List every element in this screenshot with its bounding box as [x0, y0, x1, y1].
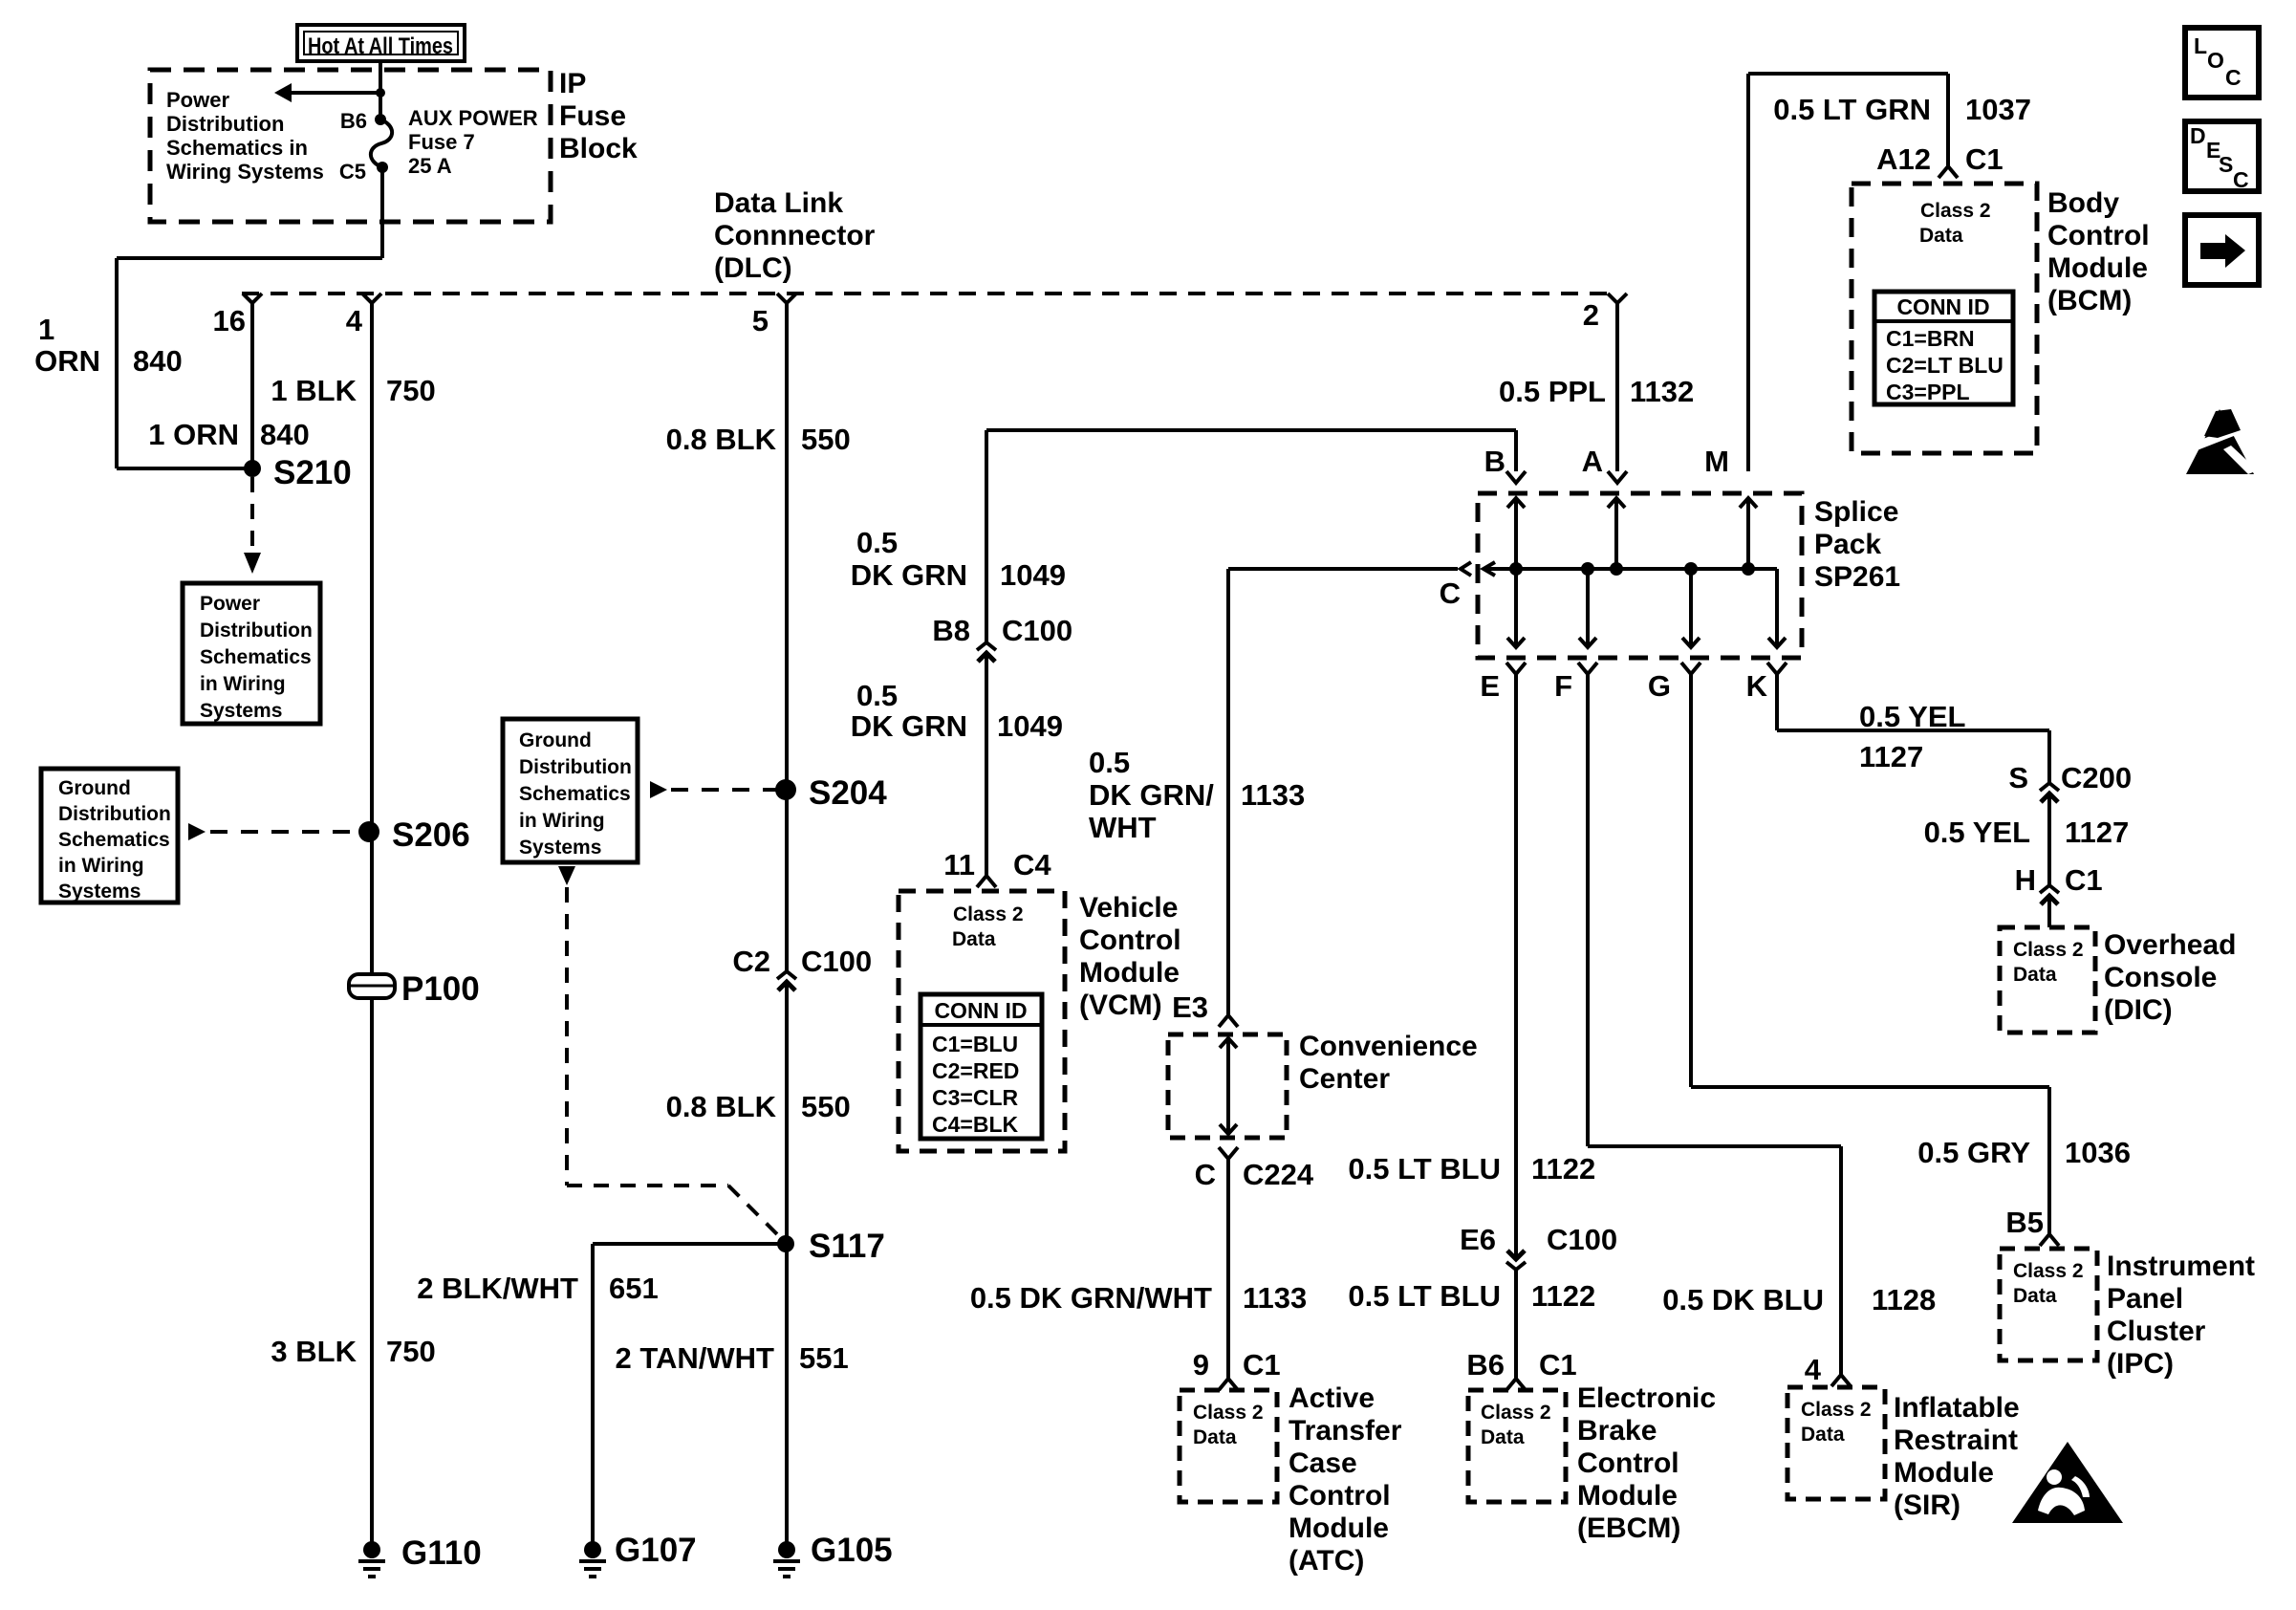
svg-text:Vehicle: Vehicle	[1079, 892, 1178, 924]
svg-text:C2=RED: C2=RED	[932, 1058, 1019, 1083]
svg-text:Data: Data	[1801, 1424, 1845, 1446]
svg-text:B6: B6	[340, 109, 367, 133]
svg-text:Class 2: Class 2	[1801, 1399, 1872, 1421]
svg-text:B6: B6	[1466, 1348, 1505, 1382]
svg-text:E3: E3	[1172, 990, 1208, 1024]
svg-text:Module: Module	[1894, 1457, 1994, 1489]
svg-text:840: 840	[260, 418, 310, 451]
svg-text:Fuse: Fuse	[559, 100, 626, 132]
svg-text:D: D	[2190, 123, 2206, 148]
svg-text:550: 550	[801, 1090, 851, 1123]
svg-text:DK GRN/: DK GRN/	[1089, 778, 1214, 812]
svg-text:4: 4	[346, 304, 363, 337]
svg-text:Data: Data	[1919, 225, 1963, 247]
svg-text:Electronic: Electronic	[1577, 1382, 1716, 1414]
svg-text:DK GRN: DK GRN	[851, 558, 967, 592]
svg-text:Class 2: Class 2	[1481, 1402, 1551, 1424]
svg-text:C1: C1	[2065, 863, 2103, 897]
svg-text:C2: C2	[732, 945, 770, 978]
svg-text:Class 2: Class 2	[1193, 1402, 1264, 1424]
svg-text:(IPC): (IPC)	[2107, 1348, 2174, 1380]
svg-text:Wiring Systems: Wiring Systems	[166, 160, 324, 184]
svg-text:G: G	[1648, 669, 1671, 703]
svg-text:9: 9	[1193, 1348, 1209, 1382]
svg-text:SP261: SP261	[1814, 561, 1900, 593]
svg-text:1036: 1036	[2065, 1136, 2131, 1169]
svg-text:1 ORN: 1 ORN	[148, 418, 239, 451]
svg-text:Module: Module	[1289, 1512, 1389, 1544]
svg-text:Instrument: Instrument	[2107, 1251, 2255, 1282]
svg-text:Class 2: Class 2	[2013, 1260, 2084, 1282]
svg-text:C1: C1	[1965, 142, 2004, 176]
svg-text:C5: C5	[339, 160, 366, 184]
svg-text:Systems: Systems	[200, 700, 282, 722]
svg-text:B8: B8	[932, 614, 970, 647]
svg-text:Data Link: Data Link	[714, 187, 843, 219]
svg-text:(BCM): (BCM)	[2047, 285, 2132, 316]
svg-text:F: F	[1554, 669, 1572, 703]
svg-text:0.5 LT BLU: 0.5 LT BLU	[1348, 1279, 1501, 1313]
svg-text:Module: Module	[1577, 1480, 1678, 1512]
svg-text:G107: G107	[615, 1532, 697, 1569]
svg-text:C100: C100	[1547, 1223, 1617, 1256]
svg-text:Hot At All Times: Hot At All Times	[308, 33, 453, 59]
svg-text:Schematics: Schematics	[519, 783, 631, 805]
svg-text:Schematics in: Schematics in	[166, 136, 308, 160]
svg-text:1122: 1122	[1531, 1152, 1595, 1186]
svg-text:B5: B5	[2005, 1206, 2044, 1239]
svg-text:1133: 1133	[1243, 1281, 1307, 1315]
svg-text:AUX POWER: AUX POWER	[408, 106, 538, 130]
svg-text:2 TAN/WHT: 2 TAN/WHT	[616, 1341, 775, 1375]
svg-text:Inflatable: Inflatable	[1894, 1392, 2020, 1424]
svg-text:L: L	[2194, 33, 2207, 58]
svg-text:K: K	[1746, 669, 1768, 703]
svg-text:S204: S204	[809, 774, 887, 812]
svg-text:A12: A12	[1876, 142, 1931, 176]
svg-text:C2=LT BLU: C2=LT BLU	[1886, 353, 2004, 378]
svg-text:Ground: Ground	[519, 729, 592, 751]
svg-text:Data: Data	[2013, 1285, 2057, 1307]
svg-text:ORN: ORN	[34, 344, 100, 378]
svg-text:0.5 DK BLU: 0.5 DK BLU	[1662, 1283, 1824, 1316]
svg-text:Distribution: Distribution	[58, 803, 171, 825]
svg-text:CONN ID: CONN ID	[934, 998, 1027, 1023]
svg-text:1127: 1127	[1859, 740, 1923, 773]
svg-text:WHT: WHT	[1089, 811, 1157, 844]
svg-text:25 A: 25 A	[408, 154, 452, 178]
svg-text:2 BLK/WHT: 2 BLK/WHT	[417, 1272, 578, 1305]
svg-text:in Wiring: in Wiring	[200, 673, 286, 695]
svg-text:0.5: 0.5	[856, 679, 898, 712]
svg-text:Power: Power	[200, 593, 260, 615]
svg-text:Distribution: Distribution	[519, 756, 632, 778]
svg-text:Pack: Pack	[1814, 529, 1881, 560]
svg-text:(DIC): (DIC)	[2104, 994, 2173, 1026]
svg-text:0.5 LT BLU: 0.5 LT BLU	[1348, 1152, 1501, 1186]
svg-text:(SIR): (SIR)	[1894, 1490, 1960, 1521]
svg-text:C: C	[2225, 65, 2242, 90]
svg-text:0.5 YEL: 0.5 YEL	[1924, 816, 2030, 849]
svg-text:C1=BRN: C1=BRN	[1886, 326, 1975, 351]
svg-text:P100: P100	[401, 970, 480, 1008]
svg-text:Ground: Ground	[58, 777, 131, 799]
svg-text:Splice: Splice	[1814, 496, 1898, 528]
svg-text:16: 16	[213, 304, 246, 337]
svg-text:750: 750	[386, 1335, 436, 1368]
svg-text:S117: S117	[809, 1228, 885, 1265]
svg-text:1: 1	[38, 313, 54, 346]
svg-text:C1: C1	[1539, 1348, 1577, 1382]
svg-text:Distribution: Distribution	[200, 620, 313, 642]
svg-text:550: 550	[801, 423, 851, 456]
svg-text:Overhead: Overhead	[2104, 929, 2236, 961]
svg-text:Control: Control	[2047, 220, 2150, 251]
svg-text:1132: 1132	[1630, 375, 1694, 408]
svg-text:C200: C200	[2061, 761, 2132, 794]
svg-text:Schematics: Schematics	[58, 829, 170, 851]
svg-text:551: 551	[799, 1341, 849, 1375]
svg-text:S206: S206	[392, 816, 470, 854]
svg-text:Body: Body	[2047, 187, 2119, 219]
svg-text:Fuse 7: Fuse 7	[408, 130, 475, 154]
svg-text:Case: Case	[1289, 1447, 1357, 1479]
svg-text:0.5 YEL: 0.5 YEL	[1859, 700, 1965, 733]
svg-text:Systems: Systems	[58, 881, 141, 903]
svg-text:Data: Data	[2013, 964, 2057, 986]
svg-text:B: B	[1484, 445, 1505, 478]
svg-text:(EBCM): (EBCM)	[1577, 1512, 1680, 1544]
svg-text:Center: Center	[1299, 1063, 1390, 1095]
svg-text:Distribution: Distribution	[166, 112, 284, 136]
svg-text:0.5 PPL: 0.5 PPL	[1499, 375, 1606, 408]
svg-text:2: 2	[1583, 298, 1599, 332]
svg-text:Transfer: Transfer	[1289, 1415, 1402, 1447]
svg-text:S: S	[2219, 152, 2233, 177]
svg-text:0.5 GRY: 0.5 GRY	[1917, 1136, 2030, 1169]
svg-text:Module: Module	[1079, 957, 1180, 989]
svg-text:0.5: 0.5	[1089, 746, 1130, 779]
svg-text:G110: G110	[401, 1534, 482, 1572]
svg-text:G105: G105	[811, 1532, 893, 1569]
svg-text:Class 2: Class 2	[953, 903, 1024, 925]
svg-text:C: C	[1195, 1158, 1216, 1191]
svg-text:CONN ID: CONN ID	[1896, 294, 1989, 319]
svg-text:0.8 BLK: 0.8 BLK	[666, 1090, 777, 1123]
svg-text:C3=CLR: C3=CLR	[932, 1085, 1018, 1110]
svg-text:C1=BLU: C1=BLU	[932, 1032, 1018, 1056]
svg-text:1049: 1049	[1000, 558, 1066, 592]
svg-text:Class 2: Class 2	[2013, 939, 2084, 961]
svg-text:Control: Control	[1079, 925, 1181, 956]
svg-text:in Wiring: in Wiring	[58, 855, 144, 877]
svg-text:0.5: 0.5	[856, 526, 898, 559]
svg-text:1122: 1122	[1531, 1279, 1595, 1313]
svg-text:Power: Power	[166, 88, 229, 112]
svg-text:Cluster: Cluster	[2107, 1316, 2206, 1347]
svg-text:0.5 DK GRN/WHT: 0.5 DK GRN/WHT	[970, 1281, 1212, 1315]
svg-text:3 BLK: 3 BLK	[271, 1335, 357, 1368]
svg-text:C3=PPL: C3=PPL	[1886, 380, 1970, 404]
svg-text:C4=BLK: C4=BLK	[932, 1112, 1018, 1137]
svg-text:O: O	[2207, 48, 2224, 73]
svg-text:Convenience: Convenience	[1299, 1031, 1478, 1062]
svg-text:C100: C100	[1002, 614, 1072, 647]
svg-text:1133: 1133	[1241, 778, 1305, 812]
svg-text:C: C	[1440, 577, 1461, 610]
svg-text:1049: 1049	[997, 709, 1063, 743]
svg-text:C4: C4	[1013, 848, 1051, 881]
svg-text:(DLC): (DLC)	[714, 252, 792, 284]
svg-text:Console: Console	[2104, 962, 2217, 993]
svg-text:Data: Data	[952, 928, 996, 950]
svg-text:1128: 1128	[1872, 1283, 1936, 1316]
svg-text:1037: 1037	[1965, 93, 2031, 126]
svg-text:651: 651	[609, 1272, 659, 1305]
svg-text:Restraint: Restraint	[1894, 1425, 2018, 1456]
svg-text:C224: C224	[1243, 1158, 1314, 1191]
svg-text:A: A	[1582, 445, 1603, 478]
svg-text:Class 2: Class 2	[1920, 200, 1991, 222]
svg-text:Systems: Systems	[519, 837, 601, 859]
svg-text:in Wiring: in Wiring	[519, 810, 605, 832]
svg-text:C1: C1	[1243, 1348, 1281, 1382]
svg-text:750: 750	[386, 374, 436, 407]
svg-text:C: C	[2233, 167, 2249, 192]
svg-text:Block: Block	[559, 133, 638, 164]
svg-text:Panel: Panel	[2107, 1283, 2183, 1315]
svg-text:E: E	[1480, 669, 1500, 703]
svg-text:Brake: Brake	[1577, 1415, 1657, 1447]
svg-text:C100: C100	[801, 945, 872, 978]
svg-text:E6: E6	[1460, 1223, 1496, 1256]
svg-text:1 BLK: 1 BLK	[271, 374, 357, 407]
svg-text:IP: IP	[559, 68, 586, 99]
svg-text:Control: Control	[1289, 1480, 1391, 1512]
svg-text:S: S	[2008, 761, 2028, 794]
svg-text:Module: Module	[2047, 252, 2148, 284]
svg-text:Schematics: Schematics	[200, 646, 312, 668]
svg-text:Control: Control	[1577, 1447, 1679, 1479]
svg-text:0.5 LT GRN: 0.5 LT GRN	[1773, 93, 1931, 126]
svg-text:(VCM): (VCM)	[1079, 990, 1162, 1021]
svg-text:4: 4	[1805, 1353, 1822, 1386]
svg-text:M: M	[1704, 445, 1729, 478]
svg-text:840: 840	[133, 344, 183, 378]
svg-text:(ATC): (ATC)	[1289, 1545, 1364, 1577]
svg-text:0.8 BLK: 0.8 BLK	[666, 423, 777, 456]
svg-text:S210: S210	[273, 454, 352, 491]
svg-text:11: 11	[943, 848, 975, 881]
svg-text:1127: 1127	[2065, 816, 2129, 849]
svg-text:Active: Active	[1289, 1382, 1375, 1414]
svg-text:Connnector: Connnector	[714, 220, 876, 251]
svg-text:5: 5	[752, 304, 769, 337]
svg-text:Data: Data	[1481, 1426, 1525, 1448]
svg-text:DK GRN: DK GRN	[851, 709, 967, 743]
svg-text:H: H	[2015, 863, 2036, 897]
svg-text:Data: Data	[1193, 1426, 1237, 1448]
